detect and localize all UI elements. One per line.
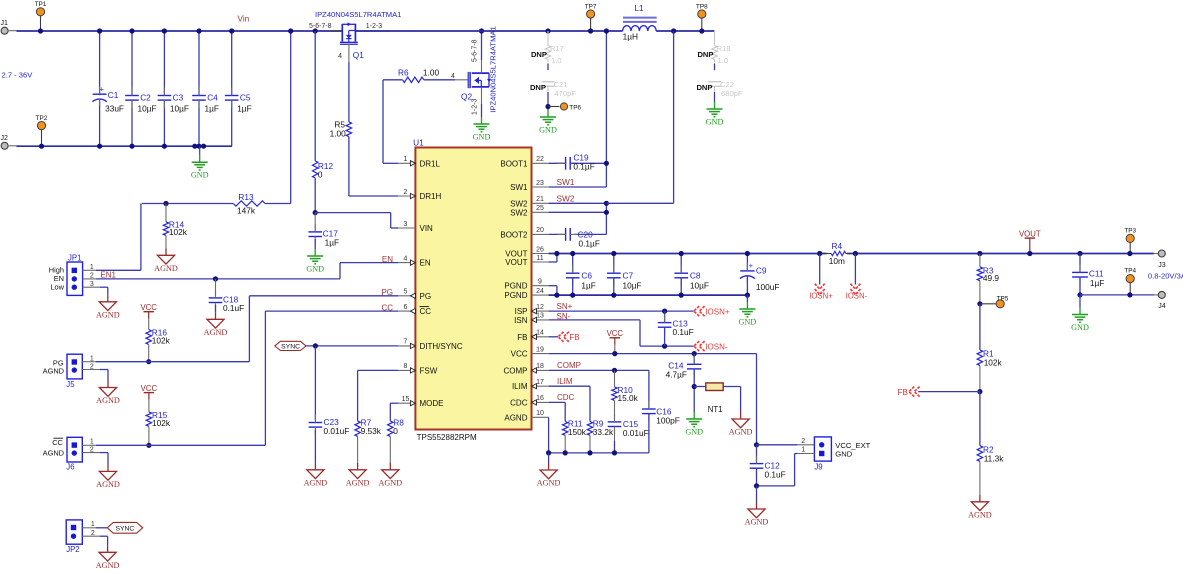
svg-text:AGND: AGND <box>745 518 769 527</box>
svg-text:PG: PG <box>381 288 393 297</box>
svg-text:AGND: AGND <box>96 396 120 405</box>
node C23 junction <box>313 343 318 348</box>
node R14 junction <box>163 201 168 206</box>
pin 13 ISN of U1 <box>532 319 549 321</box>
svg-text:J5: J5 <box>66 380 75 389</box>
svg-text:2: 2 <box>404 189 408 196</box>
svg-text:IOSN-: IOSN- <box>846 292 868 301</box>
pin 14 FB of U1 <box>532 336 549 338</box>
svg-text:GND: GND <box>739 317 757 326</box>
svg-text:DR1H: DR1H <box>420 192 442 201</box>
ground AGND below rail <box>548 453 550 463</box>
wire SYNC to chip pin 7 <box>306 345 399 347</box>
pin 4 EN of U1 <box>398 262 415 264</box>
wire GND return to J4 <box>1080 294 1154 296</box>
pin 21 SW2 of U1 <box>532 202 549 204</box>
svg-text:1: 1 <box>90 439 94 446</box>
svg-text:J2: J2 <box>1 135 9 142</box>
test point TP7 <box>587 10 595 18</box>
wire L1 to output node <box>656 30 714 32</box>
wire SW2 node riser to C20 <box>605 203 607 234</box>
svg-text:1µF: 1µF <box>205 103 219 113</box>
ground GND below Q2 <box>481 117 483 124</box>
svg-text:4: 4 <box>404 255 408 262</box>
svg-text:PGND: PGND <box>504 282 527 291</box>
pin 19 VCC of U1 <box>532 353 549 355</box>
svg-text:2.7 - 36V: 2.7 - 36V <box>2 71 34 80</box>
pin 15 MODE of U1 <box>398 402 415 404</box>
svg-text:VOUT: VOUT <box>1019 230 1041 239</box>
svg-text:IPZ40N04S5L7R4ATMA1: IPZ40N04S5L7R4ATMA1 <box>315 10 401 19</box>
wire ILIM to R9 <box>549 385 590 387</box>
op-amp U1 TPS552882RPM body <box>415 148 531 430</box>
ground GND below C21 <box>547 110 549 117</box>
svg-text:COMP: COMP <box>557 361 581 370</box>
svg-text:IOSN+: IOSN+ <box>705 307 730 316</box>
capacitor C6 1µF <box>572 254 574 274</box>
wire AGND pin 10 drop <box>548 417 550 453</box>
svg-text:9: 9 <box>538 279 542 286</box>
svg-text:+: + <box>749 261 753 270</box>
svg-text:0: 0 <box>318 170 323 180</box>
test point TP6 <box>548 106 560 108</box>
pin 8 FSW of U1 <box>398 369 415 371</box>
svg-text:24: 24 <box>536 288 544 295</box>
svg-text:16: 16 <box>536 395 544 402</box>
svg-text:GND: GND <box>306 264 324 273</box>
svg-text:10: 10 <box>536 410 544 417</box>
svg-text:4: 4 <box>338 53 342 60</box>
resistor R2 11.3k <box>979 392 981 446</box>
ground GND below C22 <box>714 102 716 109</box>
ground AGND below R14 <box>165 248 167 255</box>
svg-text:17: 17 <box>536 379 544 386</box>
svg-text:AGND: AGND <box>96 561 120 568</box>
svg-text:102k: 102k <box>152 418 171 428</box>
node R16 to PG wire <box>146 359 151 364</box>
test point TP4 <box>1126 275 1134 283</box>
svg-text:C9: C9 <box>756 266 767 276</box>
svg-text:PG: PG <box>420 292 432 301</box>
svg-text:J3: J3 <box>1158 262 1166 269</box>
resistor R15 102k <box>148 400 150 412</box>
ground GND below C14 <box>693 412 695 419</box>
svg-text:4.7µF: 4.7µF <box>666 369 687 379</box>
pin 6 CC of U1 <box>398 310 415 312</box>
net label IOSN+ down arrow <box>819 254 821 285</box>
wire CDC to R11 <box>549 401 566 403</box>
svg-text:R17: R17 <box>550 44 564 53</box>
svg-text:R6: R6 <box>398 68 409 78</box>
svg-text:C21: C21 <box>554 80 568 89</box>
wire J9 pin1 to C12 bottom <box>798 453 815 455</box>
resistor R1 102k <box>979 304 981 350</box>
pin 7 DITH/SYNC of U1 <box>398 345 415 347</box>
capacitor C3 10µF <box>163 31 165 95</box>
svg-text:18: 18 <box>536 363 544 370</box>
ground AGND below R7 <box>357 463 359 470</box>
resistor R9 33.2k <box>587 422 592 436</box>
resistor R13 147k <box>233 201 265 206</box>
wire VCC from pin 19 <box>549 353 757 355</box>
svg-text:SYNC: SYNC <box>281 344 300 351</box>
svg-text:23: 23 <box>536 180 544 187</box>
svg-text:TP2: TP2 <box>36 115 48 122</box>
svg-text:1µF: 1µF <box>581 280 595 290</box>
capacitor C4 1µF <box>198 31 200 95</box>
svg-text:C7: C7 <box>623 271 634 281</box>
svg-text:1.00: 1.00 <box>330 128 347 138</box>
net label IOSN- down arrow <box>854 254 856 285</box>
svg-text:SN-: SN- <box>557 312 571 321</box>
svg-text:10m: 10m <box>829 256 845 266</box>
ground AGND below R8 <box>389 463 391 470</box>
capacitor C16 100pF <box>648 370 650 409</box>
test point TP3 <box>1126 234 1134 242</box>
svg-text:SN+: SN+ <box>557 302 573 311</box>
wire Q2 source to GND <box>481 87 483 104</box>
svg-text:1µF: 1µF <box>237 103 251 113</box>
svg-text:3: 3 <box>404 221 408 228</box>
svg-text:1: 1 <box>801 447 805 454</box>
capacitor C5 1µF <box>231 31 233 95</box>
svg-text:DNP: DNP <box>697 50 713 59</box>
svg-text:FB: FB <box>569 333 579 342</box>
svg-text:VCC_EXT: VCC_EXT <box>835 441 870 450</box>
capacitor C14 4.7uF <box>693 354 695 365</box>
svg-text:ILIM: ILIM <box>512 382 528 391</box>
svg-text:0.01uF: 0.01uF <box>324 426 350 436</box>
svg-text:15.0k: 15.0k <box>618 393 639 403</box>
node FB junction <box>977 389 982 394</box>
test point TP8 <box>698 10 706 18</box>
svg-text:12: 12 <box>536 304 544 311</box>
svg-text:TP6: TP6 <box>569 105 581 112</box>
svg-text:8: 8 <box>404 363 408 370</box>
svg-text:C1: C1 <box>108 90 119 100</box>
capacitor C1 33uF <box>99 31 101 95</box>
svg-text:VCC: VCC <box>141 384 158 393</box>
svg-text:MODE: MODE <box>420 399 444 408</box>
wire J5 pin2 to AGND <box>100 369 108 371</box>
svg-text:TP1: TP1 <box>35 1 47 8</box>
wire R13 riser to Vin rail <box>290 31 292 204</box>
svg-text:100pF: 100pF <box>656 415 680 425</box>
ground GND below C9 <box>746 295 748 302</box>
svg-text:GND: GND <box>1071 323 1089 332</box>
wire CC net J6 to chip <box>96 444 265 446</box>
svg-text:J4: J4 <box>1158 303 1166 310</box>
svg-text:0.1uF: 0.1uF <box>673 327 694 337</box>
node IOSN- tap <box>853 251 858 256</box>
svg-text:TP7: TP7 <box>585 3 597 10</box>
ground AGND below J6 <box>107 464 109 471</box>
node C14 tap <box>692 351 697 356</box>
svg-text:PGND: PGND <box>504 291 527 300</box>
ground AGND below NT1 <box>740 412 742 419</box>
wire SW1 node riser <box>605 31 607 187</box>
svg-text:C3: C3 <box>173 92 184 102</box>
svg-text:CDC: CDC <box>557 393 575 402</box>
svg-text:ISP: ISP <box>515 307 528 316</box>
capacitor C23 0.01uF <box>314 346 316 420</box>
resistor R12 0 <box>313 28 318 33</box>
svg-text:R18: R18 <box>717 44 731 53</box>
svg-text:100uF: 100uF <box>756 282 780 292</box>
svg-text:11.3k: 11.3k <box>984 453 1005 463</box>
node R10 tap <box>612 368 617 373</box>
svg-text:AGND: AGND <box>96 310 120 319</box>
svg-text:R13: R13 <box>238 192 254 202</box>
node NT1 tap <box>692 384 697 389</box>
wire COMP from pin 18 <box>549 369 649 371</box>
test point TP2 <box>37 122 45 130</box>
svg-text:147k: 147k <box>237 206 256 216</box>
resistor R11 150k <box>563 422 568 436</box>
ground GND below C11 <box>1079 295 1081 308</box>
svg-text:C4: C4 <box>207 92 218 102</box>
node R12 bottom junction <box>313 210 318 215</box>
ground AGND below J5 <box>107 381 109 388</box>
capacitor C13 0.1uF <box>664 311 666 323</box>
svg-text:C2: C2 <box>140 92 151 102</box>
svg-text:FB: FB <box>898 388 908 397</box>
svg-text:1: 1 <box>91 521 95 528</box>
svg-text:AGND: AGND <box>729 428 753 437</box>
svg-text:FB: FB <box>517 333 527 342</box>
wire bottom input rail <box>16 145 232 147</box>
wire ISN SN- jog <box>549 319 640 321</box>
svg-text:10µF: 10µF <box>170 103 189 113</box>
svg-text:TP5: TP5 <box>997 295 1009 302</box>
pin 5 PG of U1 <box>398 295 415 297</box>
svg-text:FSW: FSW <box>420 366 438 375</box>
svg-text:6: 6 <box>404 304 408 311</box>
connector J1 <box>1 27 8 34</box>
svg-text:AGND: AGND <box>968 510 992 519</box>
ground GND of input caps <box>192 144 197 149</box>
pin 25 SW2 of U1 <box>532 211 549 213</box>
svg-text:7: 7 <box>404 339 408 346</box>
ground GND below C17 <box>314 249 316 256</box>
pin 23 SW1 of U1 <box>532 186 549 188</box>
svg-text:C6: C6 <box>581 271 592 281</box>
ground AGND below C12 <box>756 486 758 502</box>
svg-text:JP2: JP2 <box>66 545 79 554</box>
svg-text:Q1: Q1 <box>353 50 364 60</box>
svg-text:CDC: CDC <box>510 398 528 407</box>
svg-text:1.0: 1.0 <box>551 56 562 65</box>
svg-text:0.8-20V/3A: 0.8-20V/3A <box>1148 271 1183 280</box>
wire Q1 gate to R5 <box>348 44 350 62</box>
resistor R6 1.00 <box>403 77 424 82</box>
capacitor C22 DNP 680pF <box>708 81 721 83</box>
svg-text:10µF: 10µF <box>690 280 709 290</box>
ground AGND below C18 <box>215 312 217 319</box>
svg-text:C5: C5 <box>240 92 251 102</box>
svg-text:AGND: AGND <box>378 478 402 487</box>
svg-text:1: 1 <box>404 156 408 163</box>
svg-text:0: 0 <box>393 426 398 436</box>
svg-text:1µH: 1µH <box>623 32 638 42</box>
resistor R8 0 <box>390 402 398 404</box>
wire PG net J5 to chip <box>96 361 249 363</box>
test point TP5 <box>980 303 996 305</box>
pin 16 CDC of U1 <box>532 401 549 403</box>
svg-text:0.1uF: 0.1uF <box>765 469 786 479</box>
svg-text:5: 5 <box>404 289 408 296</box>
pin 1 DR1L of U1 <box>398 162 415 164</box>
resistor R3 49.9 <box>977 251 982 256</box>
svg-text:COMP: COMP <box>504 366 528 375</box>
svg-text:15: 15 <box>402 396 410 403</box>
svg-text:C8: C8 <box>690 271 701 281</box>
svg-text:5-6-7-8: 5-6-7-8 <box>309 23 332 30</box>
capacitor C21 DNP 470pF <box>542 81 555 83</box>
svg-text:TP4: TP4 <box>1124 268 1136 275</box>
svg-text:20: 20 <box>536 227 544 234</box>
svg-text:DNP: DNP <box>530 83 546 92</box>
svg-text:26: 26 <box>536 246 544 253</box>
svg-text:Low: Low <box>50 283 64 292</box>
net label port SYNC at JP2 <box>107 522 143 533</box>
svg-text:ILIM: ILIM <box>557 377 573 386</box>
svg-text:33.2k: 33.2k <box>593 427 614 437</box>
wire JP1 pin1 riser <box>140 204 142 271</box>
pin 17 ILIM of U1 <box>532 385 549 387</box>
svg-text:150k: 150k <box>568 427 587 437</box>
node C18 junction <box>213 276 218 281</box>
pin 11 VOUT of U1 <box>532 261 549 263</box>
svg-text:0.1µF: 0.1µF <box>573 161 594 171</box>
svg-text:10µF: 10µF <box>623 280 642 290</box>
wire top input rail Vin <box>16 30 342 32</box>
net label IOSN- left arrow <box>694 341 705 351</box>
svg-text:1µF: 1µF <box>1090 278 1104 288</box>
wire Q2 drain from rail <box>481 31 483 60</box>
ground AGND below JP2 <box>107 545 109 552</box>
capacitor C20 0.1uF <box>549 233 566 235</box>
svg-text:33uF: 33uF <box>105 103 124 113</box>
svg-text:TP8: TP8 <box>696 3 708 10</box>
svg-text:CC: CC <box>420 307 432 316</box>
svg-text:SW1: SW1 <box>510 183 528 192</box>
svg-text:1µF: 1µF <box>325 237 339 247</box>
svg-text:9.53k: 9.53k <box>361 426 382 436</box>
svg-text:AGND: AGND <box>537 479 561 488</box>
node C12 bottom <box>754 483 759 488</box>
svg-text:1.0: 1.0 <box>718 56 729 65</box>
svg-text:25: 25 <box>536 205 544 212</box>
svg-text:IOSN+: IOSN+ <box>809 292 833 301</box>
connector J4 <box>1154 294 1158 296</box>
svg-text:U1: U1 <box>413 138 424 148</box>
wire R5 to DR1H pin <box>349 195 398 197</box>
resistor R14 102k <box>165 204 167 222</box>
wire PGND rail <box>549 294 748 296</box>
svg-text:SW2: SW2 <box>510 208 528 217</box>
svg-text:5-6-7-8: 5-6-7-8 <box>472 39 479 62</box>
net label port SYNC at DITH pin <box>275 341 306 350</box>
resistor R17 DNP 1.0 <box>547 31 549 46</box>
svg-text:AGND: AGND <box>204 328 228 337</box>
pin 26 VOUT of U1 <box>532 253 549 255</box>
svg-text:GND: GND <box>685 427 703 436</box>
svg-text:J9: J9 <box>814 462 822 471</box>
svg-text:SW2: SW2 <box>557 193 575 203</box>
wire VCC riser to C12/J9 <box>756 354 758 445</box>
capacitor C7 10µF <box>613 254 615 274</box>
svg-text:SW2: SW2 <box>510 199 528 208</box>
wire R12 to VIN pin <box>315 212 391 214</box>
resistor R4 10m current shunt <box>820 253 832 255</box>
svg-text:470pF: 470pF <box>555 89 577 98</box>
node C12 top <box>754 442 759 447</box>
svg-text:102k: 102k <box>152 335 171 345</box>
node TP5 junction <box>977 301 982 306</box>
svg-text:102k: 102k <box>984 357 1003 367</box>
svg-text:AGND: AGND <box>154 264 178 273</box>
resistor R7 9.53k <box>358 369 399 371</box>
capacitor C8 10µF <box>680 254 682 274</box>
svg-text:+: + <box>100 84 104 93</box>
svg-text:VOUT: VOUT <box>505 258 527 267</box>
svg-text:CC: CC <box>381 304 393 313</box>
svg-text:J1: J1 <box>1 20 9 27</box>
svg-text:10µF: 10µF <box>138 103 157 113</box>
svg-text:0.1uF: 0.1uF <box>223 303 244 313</box>
jumper JP1 <box>67 262 83 295</box>
connector J6 <box>67 437 82 462</box>
svg-text:DNP: DNP <box>696 83 712 92</box>
svg-text:GND: GND <box>706 117 724 126</box>
svg-text:GND: GND <box>473 132 491 141</box>
svg-text:4: 4 <box>451 73 455 80</box>
svg-text:49.9: 49.9 <box>983 273 1000 283</box>
svg-text:DR1L: DR1L <box>420 159 441 168</box>
svg-text:EN: EN <box>420 259 431 268</box>
svg-text:1-2-3: 1-2-3 <box>472 99 479 115</box>
svg-text:IOSN-: IOSN- <box>705 342 728 351</box>
wire EN1 from JP1 to chip <box>96 278 340 280</box>
pin 3 VIN of U1 <box>398 227 415 229</box>
capacitor C18 0.1uF <box>215 279 217 296</box>
svg-text:AGND: AGND <box>43 449 64 458</box>
node Vin junction TP1 <box>38 28 43 33</box>
svg-text:BOOT2: BOOT2 <box>500 230 528 239</box>
svg-text:0.1µF: 0.1µF <box>579 238 600 248</box>
svg-text:22: 22 <box>536 156 544 163</box>
node SW2 riser <box>671 28 676 33</box>
node C11 bottom <box>1077 292 1082 297</box>
svg-text:JP1: JP1 <box>68 253 81 262</box>
svg-text:AGND: AGND <box>346 478 370 487</box>
node TP6 junction <box>545 104 550 109</box>
pin 9 PGND of U1 <box>532 285 549 287</box>
svg-text:21: 21 <box>536 196 544 203</box>
capacitor C15 0.01uF <box>608 421 622 423</box>
svg-text:BOOT1: BOOT1 <box>500 159 528 168</box>
svg-text:AGND: AGND <box>43 366 64 375</box>
svg-text:GND: GND <box>539 125 557 134</box>
wire VOUT pin 11 joins <box>549 261 557 263</box>
svg-text:NT1: NT1 <box>708 405 723 414</box>
svg-text:Vin: Vin <box>238 15 250 24</box>
svg-text:19: 19 <box>536 346 544 353</box>
connector J2 <box>1 142 8 149</box>
svg-text:L1: L1 <box>634 3 644 13</box>
wire J6 pin2 to AGND <box>100 452 108 454</box>
